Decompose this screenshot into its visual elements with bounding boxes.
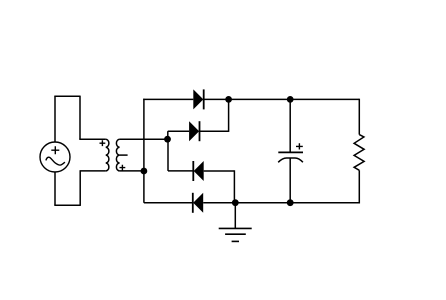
resistor R1 top lead [358,99,360,135]
diode D3 [193,161,203,181]
transformer T1 secondary winding [116,139,119,171]
wire secondary bottom to node B [120,170,144,172]
wire D1 to top rail [204,98,360,100]
junction dot ground node [232,199,239,206]
node B junction dot [141,168,148,175]
secondary center tap stub [120,154,128,156]
ground lead [234,203,236,229]
node A junction dot [164,136,171,143]
wire node A up to D2 row [167,131,169,139]
wire to diode D1 [143,98,193,100]
capacitor C1 bottom lead [289,158,291,203]
junction dot cap bottom [287,199,294,206]
diode D1 [193,89,203,109]
wire secondary top to node A [120,138,168,140]
capacitor C1 bottom plate (curved) [278,158,303,162]
wire bridge left vertical [143,99,145,203]
wire to diode D3 [168,170,193,172]
primary plus label [100,140,106,146]
capacitor C1 plus label [296,143,303,149]
wire corner down to bottom rail [233,170,235,202]
ac source plus label [51,146,59,154]
resistor R1 bottom lead [358,170,360,203]
wire corner up to top rail [228,99,230,131]
wire down to primary top [79,96,81,140]
capacitor C1 top plate [278,151,303,153]
wire D2 to corner [200,130,229,132]
transformer T1 primary winding [106,139,109,171]
wire bottom horizontal [54,204,80,206]
wire top horizontal [54,95,80,97]
wire to diode D2 [168,130,189,132]
junction dot cap top [287,96,294,103]
wire node A down to D3 row [167,139,169,171]
wire to primary bottom [80,170,106,172]
resistor R1 zigzag [354,135,364,171]
wire to primary top [79,138,105,140]
wire source top [54,96,56,142]
ground symbol [219,228,252,241]
diode D4 [193,193,203,213]
wire up from bottom [79,171,81,206]
ac source sine wave [46,157,65,165]
diode D2 [189,121,199,141]
ac source V1 [40,142,70,172]
wire source bottom [54,172,56,205]
capacitor C1 top lead [289,99,291,152]
junction dot top rail D2 [225,96,232,103]
wire bridge bottom to D4 [144,202,193,204]
wire D4 to bottom rail [203,202,359,204]
secondary plus label [120,165,126,171]
wire D3 to corner [204,170,235,172]
